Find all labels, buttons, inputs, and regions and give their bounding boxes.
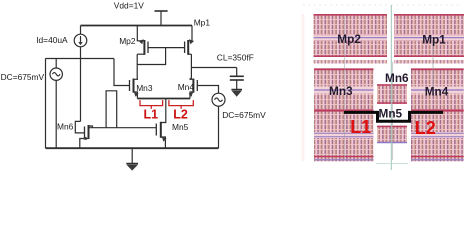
wire Mn6 gate jog	[75, 121, 84, 132]
svg-text:Mn6: Mn6	[385, 71, 409, 85]
wire Mn4 gate to V2	[197, 86, 218, 94]
transistor Mp2	[137, 26, 148, 55]
schematic text labels	[1, 0, 267, 132]
layout block Mn4	[411, 68, 464, 161]
guide line teal bottom	[376, 163, 408, 165]
guide line gray vertical center	[392, 62, 394, 160]
svg-text:Mn6: Mn6	[57, 122, 74, 132]
net wire black staple	[344, 112, 443, 121]
capacitor CL	[230, 68, 244, 90]
transistor Mn3	[130, 79, 139, 99]
svg-text:Mp1: Mp1	[422, 32, 446, 46]
transistor Mn4	[189, 79, 198, 99]
wire ground rail	[46, 147, 219, 149]
wire Vdd rail	[81, 25, 193, 27]
wire V1 to ground rail	[55, 80, 57, 148]
wire tail to Mn5 drain	[165, 99, 167, 123]
ground symbol CL	[231, 90, 242, 97]
voltage source V1 DC=675mV	[50, 59, 62, 81]
guide line gray vertical	[344, 16, 346, 160]
top dashed guide	[303, 4, 462, 6]
layout block Mp2	[314, 14, 388, 57]
wire Mp2 diode connection	[137, 48, 165, 65]
transistor Mp1	[185, 26, 195, 55]
current source Id	[74, 26, 87, 47]
wire Mn6 to Mn5 gate	[89, 127, 157, 129]
svg-text:Mp2: Mp2	[119, 36, 136, 46]
transistor Mn6	[80, 125, 93, 148]
faint left strip	[302, 14, 305, 161]
wire output node to CL	[191, 67, 236, 69]
wire bias loop rectangle	[106, 91, 117, 128]
wire tail node	[137, 98, 190, 100]
svg-text:Mn4: Mn4	[425, 84, 449, 98]
svg-text:Vdd=1V: Vdd=1V	[114, 0, 144, 10]
layout block Mp1	[394, 14, 464, 57]
wire input to Mn3 gate	[114, 59, 130, 86]
Vdd supply symbol	[155, 11, 168, 26]
svg-text:Mn5: Mn5	[172, 122, 189, 132]
wire bias node horizontal	[46, 58, 115, 60]
svg-text:L1: L1	[144, 108, 159, 122]
guide line teal vertical center	[390, 5, 392, 170]
inter-row strip left	[314, 60, 388, 64]
layout labels	[329, 32, 449, 120]
layout block Mn6 cell	[377, 84, 407, 104]
voltage source V2 DC=675mV	[212, 93, 225, 106]
inductor L1 highlight bracket	[140, 100, 163, 109]
transistor Mn5	[156, 122, 166, 148]
wire Mp2/Mn3 drain junction	[136, 78, 138, 81]
svg-text:L2: L2	[415, 118, 436, 138]
wire V2 to ground rail	[218, 106, 220, 148]
svg-text:DC=675mV: DC=675mV	[1, 72, 45, 82]
guide line gray vertical right	[432, 40, 434, 95]
inter-row strip right	[394, 60, 464, 64]
ground symbol main	[126, 148, 138, 170]
layout block Mn5 cell	[377, 126, 407, 143]
svg-text:DC=675mV: DC=675mV	[222, 110, 266, 120]
svg-text:Mn4: Mn4	[178, 82, 195, 92]
svg-text:Mn3: Mn3	[329, 84, 353, 98]
svg-text:L2: L2	[173, 108, 188, 122]
wire Mp2-Mp1 gate	[148, 47, 185, 49]
wire Id output node	[80, 47, 82, 122]
svg-text:L1: L1	[350, 117, 371, 137]
inductor L2 highlight bracket	[169, 100, 193, 109]
svg-text:Mn3: Mn3	[136, 83, 153, 93]
svg-text:Mp2: Mp2	[337, 32, 361, 46]
svg-text:CL=350fF: CL=350fF	[217, 53, 254, 63]
layout block Mn3	[314, 68, 374, 161]
svg-text:Mp1: Mp1	[194, 17, 211, 27]
wire Mp1 drain to output node	[190, 54, 192, 78]
svg-text:Id=40uA: Id=40uA	[36, 35, 68, 45]
wire Mn4 drain to output vertical	[190, 78, 191, 80]
wire Mp2 drain to Mn3 drain	[136, 54, 138, 78]
wire left boundary	[45, 59, 47, 149]
svg-text:Mn5: Mn5	[379, 106, 403, 120]
